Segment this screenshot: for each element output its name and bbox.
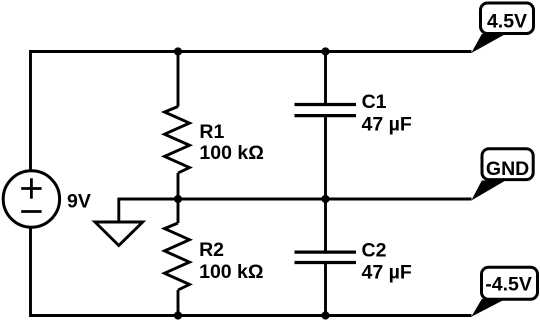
junction dot GND C branch: [321, 195, 329, 203]
svg-text:100 kΩ: 100 kΩ: [199, 142, 263, 164]
wire C2 top from GND rail: [324, 199, 327, 252]
wire C2 bottom to bottom rail: [324, 263, 327, 316]
svg-text:47 µF: 47 µF: [362, 261, 412, 283]
wire left rail lower + bottom rail: [31, 228, 472, 315]
voltage source V1 circle: [3, 171, 59, 227]
junction dot top C branch: [321, 47, 329, 55]
flag box 4.5V: [481, 3, 534, 34]
svg-text:GND: GND: [486, 158, 529, 180]
wire R2 bottom to bottom rail: [177, 290, 180, 316]
svg-text:R1: R1: [199, 121, 224, 143]
svg-text:100 kΩ: 100 kΩ: [199, 261, 263, 283]
wire R branch from top rail to R1: [177, 52, 180, 107]
wire top rail + left rail upper: [31, 52, 472, 170]
wire C1 bottom to GND rail: [324, 116, 327, 199]
wire GND rail: [119, 198, 472, 201]
junction dot top R branch: [174, 47, 182, 55]
capacitor C1: [295, 105, 357, 116]
capacitor C2: [295, 252, 357, 262]
flag wedge -4.5V: [471, 299, 505, 317]
svg-text:-4.5V: -4.5V: [485, 274, 532, 296]
voltage source plus sign: [21, 178, 41, 198]
wire C branch from top rail to C1: [324, 52, 327, 105]
resistor R1: [165, 107, 190, 174]
ground symbol: [95, 222, 143, 246]
junction dot bottom R branch: [174, 311, 182, 319]
svg-text:47 µF: 47 µF: [362, 114, 412, 136]
svg-text:C2: C2: [362, 240, 387, 262]
wire R1 bottom to GND rail: [177, 173, 180, 199]
wire ground stub: [117, 198, 120, 222]
flag wedge GND: [471, 181, 505, 201]
svg-text:4.5V: 4.5V: [487, 10, 527, 32]
flag wedge 4.5V: [471, 34, 505, 53]
junction dot GND R branch: [174, 195, 182, 203]
wire R2 top from GND rail: [177, 199, 180, 223]
svg-text:9V: 9V: [67, 191, 91, 213]
junction dot bottom C branch: [321, 311, 329, 319]
resistor R2: [165, 223, 190, 290]
svg-text:R2: R2: [199, 239, 224, 261]
flag box -4.5V: [482, 267, 538, 299]
svg-text:C1: C1: [362, 91, 387, 113]
voltage source minus sign: [21, 210, 41, 213]
flag box GND: [482, 149, 533, 180]
